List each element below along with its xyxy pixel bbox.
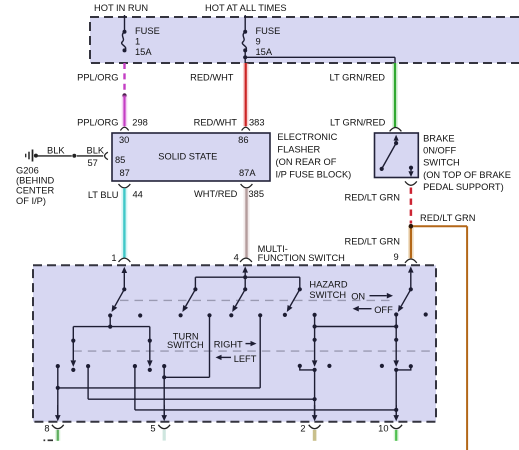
- fuse 1 15A: [122, 15, 160, 57]
- mechanical link (lower dashed): [73, 350, 434, 352]
- svg-text:BRAKE: BRAKE: [423, 133, 455, 143]
- pin 1 label: [111, 253, 116, 263]
- svg-text:1: 1: [135, 36, 140, 46]
- connector at pin 9: [405, 259, 417, 263]
- connector below pin 8: [52, 425, 64, 429]
- connector below pin 2: [309, 425, 321, 429]
- pin 8 exit arrow: [55, 405, 61, 421]
- label RIGHT with arrow: [214, 339, 257, 349]
- svg-text:PPL/ORG: PPL/ORG: [77, 73, 118, 83]
- pin 87A label: [239, 168, 256, 178]
- bracket contact right of B4: [396, 364, 413, 370]
- tick mark near pin 8: [44, 439, 54, 441]
- label RED/WHT 383: [194, 118, 265, 128]
- svg-text:LT BLU: LT BLU: [88, 190, 119, 200]
- right contact of arm A4 (to hazard rail): [313, 313, 317, 327]
- label HAZARD SWITCH: [309, 279, 348, 300]
- label BRAKE ON/OFF SWITCH (ON TOP OF BRAKE PEDAL SUPPORT): [423, 133, 511, 192]
- junction at ground: [34, 154, 38, 158]
- fuse 9 15A: [242, 15, 280, 57]
- junction on RED/LT GRN: [409, 224, 414, 229]
- hazard off contact: [424, 312, 428, 316]
- brake on/off switch box: [375, 133, 419, 178]
- label SOLID STATE: [158, 152, 217, 162]
- MFS pin 1 input arrow: [122, 267, 128, 290]
- svg-text:5: 5: [150, 424, 155, 434]
- svg-text:9: 9: [394, 252, 399, 262]
- label PPL/ORG 298: [77, 118, 148, 128]
- pin 5 label: [150, 424, 155, 434]
- pin 30 label: [119, 135, 129, 145]
- contact (turn feed) under pin 1 arm: [108, 313, 112, 326]
- wire stub pin 5 (lt grn): [163, 430, 166, 441]
- pin 4 label: [234, 253, 239, 263]
- svg-text:RED/LT GRN: RED/LT GRN: [345, 237, 400, 247]
- pin 2 label: [300, 424, 305, 434]
- svg-text:ON: ON: [351, 292, 365, 302]
- svg-text:SWITCH: SWITCH: [309, 290, 346, 300]
- wire LT GRN/RED from bus to brake switch: [392, 63, 398, 127]
- wire RED/LT GRN (dashed) from brake switch: [410, 188, 413, 224]
- svg-text:15A: 15A: [135, 47, 152, 57]
- svg-text:FLASHER: FLASHER: [277, 144, 320, 154]
- svg-text:(ON TOP OF BRAKE: (ON TOP OF BRAKE: [423, 170, 511, 180]
- svg-text:HAZARD: HAZARD: [309, 279, 348, 289]
- contact right of B3: [327, 364, 331, 368]
- svg-text:LT GRN/RED: LT GRN/RED: [330, 73, 386, 83]
- wire RED/WHT from fuse 9 to flasher pin 86: [243, 63, 249, 126]
- label PPL/ORG (upper): [77, 73, 118, 83]
- connector below pin 10: [390, 425, 402, 429]
- pin 4 feed bar: [195, 275, 299, 289]
- switch arm A2: [182, 287, 197, 312]
- svg-text:87A: 87A: [239, 168, 256, 178]
- connector below pin 5: [158, 425, 170, 429]
- svg-text:SWITCH: SWITCH: [167, 340, 204, 350]
- contact to pin 8: [56, 364, 60, 416]
- rest contact of arm A2: [179, 313, 183, 317]
- splice on PPL/ORG wire: [122, 93, 126, 97]
- wire: fuse 9 to bus tap toward brake switch: [245, 50, 395, 63]
- connector at pin 87: [119, 184, 131, 188]
- rest contact of arm A4: [283, 313, 287, 317]
- svg-text:(BEHIND: (BEHIND: [16, 176, 55, 186]
- wire WHT/RED from pin 87A to MFS pin 4: [244, 188, 250, 258]
- pin 10 exit arrow: [393, 405, 399, 421]
- pin 5 exit arrow: [161, 405, 167, 421]
- wire RED/LT GRN branch to right edge: [411, 226, 467, 450]
- pin 1 switch arm: [112, 287, 127, 312]
- label OFF with arrow: [353, 305, 394, 315]
- pin 10 label: [378, 424, 388, 434]
- mechanical link (upper dashed): [120, 299, 395, 301]
- svg-text:ELECTRONIC: ELECTRONIC: [277, 132, 337, 142]
- connector 383 at pin 86: [242, 127, 250, 130]
- svg-text:BLK: BLK: [87, 145, 105, 155]
- label MULTI-FUNCTION SWITCH: [258, 244, 345, 263]
- label ON with arrow: [351, 292, 393, 302]
- label LT GRN/RED (at brake switch): [330, 118, 386, 128]
- label RED/LT GRN (right branch): [420, 213, 475, 223]
- pin 8 label: [44, 424, 49, 434]
- rest contact under B2: [148, 368, 152, 372]
- turn pole B1: [71, 339, 77, 367]
- svg-text:8: 8: [44, 424, 49, 434]
- label ELECTRONIC FLASHER (ON REAR OF I/P FUSE BLOCK): [276, 132, 352, 179]
- turn pole B2: [147, 339, 153, 367]
- connector 57 at flasher pin 85: [105, 152, 108, 159]
- svg-text:OFF: OFF: [374, 305, 393, 315]
- rail to arm A3 contact: [58, 387, 260, 389]
- turn output rail: [73, 325, 150, 341]
- wire PPL/ORG (dashed) from fuse 1: [123, 63, 125, 96]
- svg-text:383: 383: [249, 118, 265, 128]
- wire LT BLU from pin 87 to MFS pin 1: [121, 188, 127, 258]
- svg-text:LT GRN/RED: LT GRN/RED: [330, 118, 386, 128]
- svg-text:FUSE: FUSE: [135, 26, 160, 36]
- svg-text:SOLID STATE: SOLID STATE: [158, 152, 217, 162]
- label TURN SWITCH: [167, 331, 204, 350]
- svg-text:RIGHT: RIGHT: [214, 339, 243, 349]
- label LT GRN/RED (upper): [330, 73, 386, 83]
- label HOT AT ALL TIMES: [205, 3, 287, 13]
- svg-text:10: 10: [378, 424, 388, 434]
- hazard switch arm A5: [398, 287, 413, 312]
- hazard pole B4 (to pin 10): [393, 327, 399, 418]
- wire stub pin 8 (green): [55, 430, 60, 441]
- svg-text:PEDAL SUPPORT): PEDAL SUPPORT): [423, 182, 504, 192]
- svg-text:SWITCH: SWITCH: [423, 158, 460, 168]
- wire BLK ground run: [38, 155, 104, 157]
- hazard pole B3 (to pin 2): [312, 327, 318, 418]
- svg-text:CENTER: CENTER: [16, 186, 55, 196]
- wire stub pin 2 (tan): [313, 430, 317, 441]
- svg-text:85: 85: [115, 155, 125, 165]
- ground G206 symbol: [26, 150, 33, 162]
- label G206 (BEHIND CENTER OF I/P): [16, 166, 55, 206]
- svg-text:86: 86: [238, 135, 248, 145]
- switch arm A4: [287, 287, 302, 312]
- svg-text:HOT AT ALL TIMES: HOT AT ALL TIMES: [205, 3, 287, 13]
- pin 86 label: [238, 135, 248, 145]
- label WHT/RED 385: [194, 189, 264, 199]
- svg-text:44: 44: [133, 190, 143, 200]
- switch arm A3: [232, 287, 247, 312]
- connector at MFS pin 4: [240, 258, 252, 262]
- brake switch output contact arrow: [408, 166, 413, 177]
- wire stub pin 10 (green): [394, 430, 399, 441]
- contact to pin 5: [162, 364, 209, 416]
- right contact of arm A2 (to pin 5 link): [207, 313, 211, 377]
- svg-text:RED/LT GRN: RED/LT GRN: [345, 193, 400, 203]
- power distribution bus box (hot bus): [90, 17, 519, 63]
- label HOT IN RUN: [94, 3, 148, 13]
- right contact of pin 1 arm: [138, 313, 142, 317]
- svg-text:WHT/RED: WHT/RED: [194, 189, 238, 199]
- svg-text:RED/WHT: RED/WHT: [190, 73, 234, 83]
- contact to pin 2 rail: [86, 364, 315, 399]
- svg-text:PPL/ORG: PPL/ORG: [77, 118, 118, 128]
- connector at MFS pin 1: [119, 258, 131, 262]
- svg-text:(ON REAR OF: (ON REAR OF: [276, 157, 337, 167]
- hazard rail: [313, 324, 399, 328]
- svg-text:RED/LT GRN: RED/LT GRN: [420, 213, 475, 223]
- wire PPL/ORG (solid) to flasher pin 30: [122, 96, 128, 127]
- connector 298 at pin 30: [120, 127, 128, 130]
- pin 87 label: [120, 168, 130, 178]
- svg-text:FUNCTION SWITCH: FUNCTION SWITCH: [258, 253, 345, 263]
- svg-text:2: 2: [300, 424, 305, 434]
- connector at pin 87A: [241, 184, 253, 188]
- pin 85 label: [115, 155, 125, 165]
- label BLK (left): [47, 145, 65, 155]
- splice on BLK wire: [72, 154, 76, 158]
- label LEFT with arrow: [216, 354, 257, 364]
- bracket contact left of B3: [298, 364, 315, 370]
- svg-text:RED/WHT: RED/WHT: [194, 118, 238, 128]
- svg-text:15A: 15A: [256, 47, 273, 57]
- junction at fuse 9 output: [243, 55, 247, 59]
- svg-text:HOT IN RUN: HOT IN RUN: [94, 3, 148, 13]
- MFS pin 9 input arrow: [408, 266, 414, 289]
- connector at brake switch input: [390, 128, 402, 132]
- hazard feed contact (to hazard rail): [394, 312, 398, 326]
- label RED/LT GRN (below brake switch): [345, 193, 400, 203]
- contact left of B4: [380, 364, 384, 368]
- right contact of arm A3 (to pin 8 rail): [258, 313, 262, 388]
- svg-text:I/P FUSE BLOCK): I/P FUSE BLOCK): [276, 169, 352, 179]
- electronic flasher solid state box U1: [112, 133, 270, 181]
- svg-text:87: 87: [120, 168, 130, 178]
- label RED/LT GRN (above pin 9): [345, 237, 400, 247]
- pin 2 exit arrow: [312, 405, 318, 421]
- rest contact under B1: [71, 368, 75, 372]
- connector below brake switch: [405, 181, 417, 185]
- svg-text:0N/OFF: 0N/OFF: [423, 146, 456, 156]
- brake switch arm: [380, 135, 399, 171]
- svg-text:385: 385: [249, 189, 265, 199]
- svg-text:BLK: BLK: [47, 145, 65, 155]
- svg-text:1: 1: [111, 253, 116, 263]
- wire RED/LT GRN to pin 9: [408, 226, 414, 258]
- svg-text:G206: G206: [16, 166, 39, 176]
- MFS pin 4 input arrow: [242, 266, 248, 277]
- label RED/WHT (upper): [190, 73, 234, 83]
- label LT BLU 44: [88, 190, 143, 200]
- svg-text:4: 4: [234, 253, 239, 263]
- label BLK 57 (right): [87, 145, 105, 168]
- svg-text:30: 30: [119, 135, 129, 145]
- svg-text:57: 57: [88, 158, 98, 168]
- rest contact of arm A3: [229, 313, 233, 317]
- multi-function switch box: [33, 265, 436, 421]
- svg-text:298: 298: [132, 118, 148, 128]
- svg-text:OF I/P): OF I/P): [16, 196, 46, 206]
- svg-text:LEFT: LEFT: [234, 354, 257, 364]
- contact to pin 10 rail: [133, 364, 396, 410]
- svg-text:9: 9: [256, 36, 261, 46]
- pin 9 label: [394, 252, 399, 262]
- svg-text:FUSE: FUSE: [256, 26, 281, 36]
